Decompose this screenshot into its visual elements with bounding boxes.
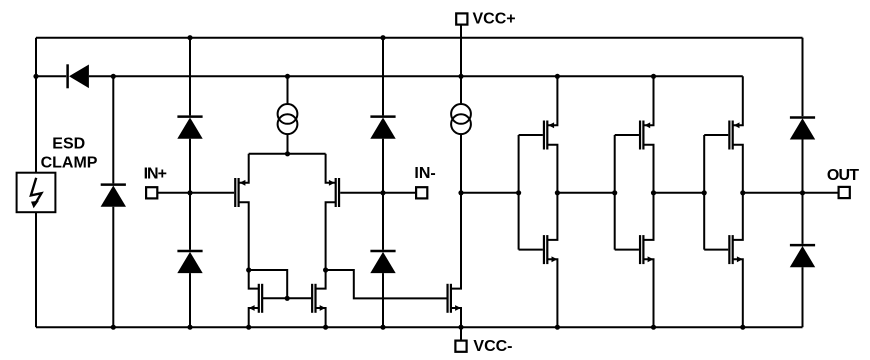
wire diff pair tail wire	[249, 153, 326, 155]
svg-text:IN-: IN-	[414, 165, 435, 182]
junction Q1-Q3 drain node	[246, 267, 251, 272]
wire VCC+ rail left stub to diode D1	[36, 75, 66, 77]
wire column at x=113 upper segment	[112, 76, 114, 183]
wire Q3-Q4 gate tie	[262, 297, 311, 299]
transistor Q2 (diff pair right PMOS)	[326, 154, 339, 270]
diode D5 (IN- to top bus)	[370, 117, 395, 139]
junction stage 2 gate node	[612, 190, 617, 195]
junction VCC- rail / IN- column	[380, 325, 385, 330]
wire IN+ lead to Q1 gate	[157, 192, 234, 194]
terminal IN-	[416, 187, 427, 198]
junction stage 3 gate node	[702, 190, 707, 195]
current source I1	[278, 104, 298, 134]
transistor Q6 (stage 1 PMOS)	[544, 76, 557, 193]
junction stage 1 gate node	[516, 190, 521, 195]
wire Q2 gate to IN- lead	[340, 192, 416, 194]
wire IN- column middle segment	[382, 139, 384, 250]
junction VCC- rail / stage 3 source	[740, 325, 745, 330]
junction IN+ node	[187, 190, 192, 195]
wire IN- column bottom segment	[382, 273, 384, 327]
wire VCC- bottom rail	[36, 326, 803, 328]
junction VCC- rail / Q4 source	[323, 325, 328, 330]
ESD clamp lightning bolt	[31, 178, 42, 209]
svg-text:CLAMP: CLAMP	[41, 154, 98, 171]
wire IN+ column bottom segment	[189, 273, 191, 327]
junction VCC+ rail / stage 2 source	[651, 74, 656, 79]
wire right diode column lower segment	[802, 267, 804, 327]
transistor Q8 (stage 2 PMOS)	[640, 76, 653, 193]
junction top bus / IN- column	[380, 35, 385, 40]
wire stage 1 PMOS gate lead	[519, 134, 543, 136]
junction VCC+ rail / left bus	[33, 74, 38, 79]
junction Q2-Q4 drain node	[323, 267, 328, 272]
wire stage 2 NMOS gate lead	[615, 249, 639, 251]
diode D6 (IN- to VCC-)	[370, 251, 395, 273]
wire stage 3 NMOS gate lead	[704, 249, 728, 251]
junction node A (diff output)	[458, 190, 463, 195]
wire column at x=113 lower segment	[112, 207, 114, 328]
junction top bus / IN+ column	[187, 35, 192, 40]
diode D4 (IN+ to VCC-)	[177, 251, 202, 273]
junction VCC- rail / stage 1 source	[555, 325, 560, 330]
svg-text:OUT: OUT	[827, 167, 859, 184]
junction stage 1 drain node	[555, 190, 560, 195]
transistor Q1 (diff pair left PMOS)	[235, 154, 248, 270]
wire node A to stage 1 gate	[461, 192, 519, 194]
junction VCC+ rail / VCC+ vertical	[458, 74, 463, 79]
wire right diode column upper segment	[802, 38, 804, 117]
diode D3 (IN+ to top bus)	[177, 117, 202, 139]
junction VCC+ rail / x=113 column	[111, 74, 116, 79]
svg-text:VCC+: VCC+	[473, 11, 516, 28]
terminal OUT	[839, 187, 850, 198]
transistor Q3 (mirror left NMOS)	[249, 270, 262, 327]
wire IN- column top segment	[382, 38, 384, 116]
svg-text:ESD: ESD	[52, 135, 85, 152]
wire stage 2 drain to stage 3 gate	[654, 192, 705, 194]
wire IN+ column top segment	[189, 38, 191, 116]
diode D7 (OUT to top bus)	[790, 117, 815, 139]
wire stage 2 PMOS gate lead	[615, 134, 639, 136]
diode D1 (reverse supply diode)	[68, 64, 89, 88]
junction VCC- rail / IN+ column	[187, 325, 192, 330]
transistor Q10 (stage 3 PMOS)	[729, 76, 742, 193]
wire right diode column middle segment	[802, 140, 804, 244]
transistor Q5 (tail sink NMOS)	[448, 193, 461, 327]
wire IN+ column middle segment	[189, 139, 191, 250]
wire Q4 drain to Q5 gate	[326, 270, 448, 298]
terminal IN+	[146, 187, 157, 198]
wire stage 3 PMOS gate lead	[704, 134, 728, 136]
wire left bus upper segment (top rail to ESD clamp)	[35, 38, 37, 173]
transistor Q7 (stage 1 NMOS)	[544, 193, 557, 327]
wire left bus lower segment (ESD clamp to VCC- rail)	[35, 212, 37, 327]
wire current source I2 to node A	[460, 134, 462, 193]
junction stage 2 drain node	[651, 190, 656, 195]
junction VCC- rail / Q3 source	[246, 325, 251, 330]
wire node A to Q5 drain	[460, 193, 462, 289]
diode D2 (x=113 clamp diode)	[101, 185, 126, 207]
transistor Q4 (mirror right NMOS)	[312, 270, 325, 327]
junction stage 3 drain node	[740, 190, 745, 195]
wire I1 bottom lead	[287, 134, 289, 154]
current source I2	[451, 104, 471, 134]
wire stage 1 gate bus	[518, 135, 520, 250]
diode D8 (OUT to VCC-)	[790, 245, 815, 267]
wire Q3 drain-gate loop	[249, 270, 288, 298]
wire VCC+ terminal lead	[460, 25, 462, 104]
wire stage 1 NMOS gate lead	[519, 249, 543, 251]
terminal VCC-	[455, 341, 466, 352]
svg-text:IN+: IN+	[144, 165, 167, 182]
junction VCC- rail / Q5 source	[458, 325, 463, 330]
junction VCC+ rail / stage 1 source	[555, 74, 560, 79]
wire top ESD bus rail	[36, 37, 803, 39]
transistor Q9 (stage 2 NMOS)	[640, 193, 653, 327]
wire stage 2 gate bus	[614, 135, 616, 250]
wire VCC- terminal stub	[460, 327, 462, 340]
wire stage 3 drain to OUT	[743, 192, 839, 194]
ESD clamp box	[17, 173, 56, 213]
junction mirror gate node	[285, 296, 290, 301]
terminal VCC+	[456, 13, 467, 24]
transistor Q11 (stage 3 NMOS)	[729, 193, 742, 327]
wire VCC+ distribution rail	[89, 75, 743, 77]
junction VCC- rail / x=113 column	[111, 325, 116, 330]
svg-text:VCC-: VCC-	[473, 338, 512, 355]
wire stage 3 gate bus	[703, 135, 705, 250]
junction OUT / diode column node	[800, 190, 805, 195]
junction VCC+ rail / I1	[285, 74, 290, 79]
junction VCC- rail / stage 2 source	[651, 325, 656, 330]
wire I1 top lead	[287, 76, 289, 104]
junction IN- node	[380, 190, 385, 195]
junction diff tail node	[285, 151, 290, 156]
wire stage 1 drain to stage 2 gate	[557, 192, 614, 194]
